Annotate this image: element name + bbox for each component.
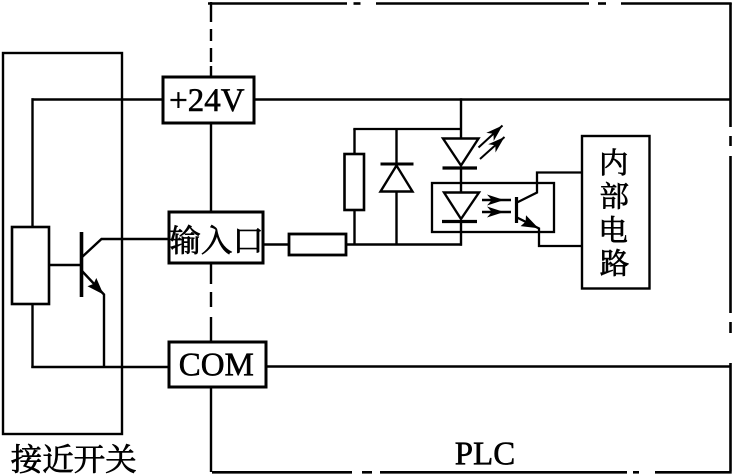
wire LED2 cathode down to input wire xyxy=(460,222,462,246)
transistor Q1 emitter arrow xyxy=(88,278,104,295)
wire input terminal to resistor R1 xyxy=(263,243,289,245)
optocoupler U1 package box xyxy=(432,183,554,232)
zener diode D1 bottom lead xyxy=(395,192,397,246)
label COM xyxy=(180,354,253,376)
terminal input box xyxy=(169,212,263,263)
caption PLC xyxy=(456,443,514,465)
zener diode D1 top lead xyxy=(395,129,397,165)
optocoupler LED2 triangle xyxy=(444,193,479,220)
resistor R2 (shunt resistor) xyxy=(345,154,365,210)
LED1 indicator diode triangle xyxy=(443,139,479,166)
caption proximity switch (jie jin kai guan) xyxy=(12,444,136,473)
wire +24V rail to PLC right border xyxy=(254,98,731,100)
LED1 light emission arrow lower xyxy=(480,137,505,159)
wire from +24V terminal to sensor (top horizontal) xyxy=(32,98,164,100)
optocoupler light coupling arrow lower xyxy=(482,211,511,213)
wire R2 bottom lead xyxy=(353,210,355,245)
internal circuit box xyxy=(582,136,650,289)
wire: PLC boundary top chain line xyxy=(208,2,732,5)
zener diode D1 cathode bar xyxy=(381,163,414,166)
wire: chain line above +24V terminal xyxy=(210,2,212,78)
resistor R1 (series input resistor) xyxy=(289,234,346,255)
wire transistor base to sensor xyxy=(48,264,81,266)
phototransistor Q2 emitter xyxy=(517,218,582,247)
transistor Q1 base bar xyxy=(80,232,84,297)
wire LED1 to LED2 xyxy=(460,167,462,193)
wire: PLC boundary bottom chain line xyxy=(212,471,732,474)
wire R2 top lead xyxy=(353,129,355,155)
phototransistor Q2 base bar xyxy=(515,197,518,223)
wire down-left to sensor element xyxy=(31,98,33,228)
wire below sensor element xyxy=(31,304,33,368)
label internal circuit (nei bu dian lu) xyxy=(601,149,629,277)
wire resistor R1 to LED branch xyxy=(346,243,462,245)
transistor Q1 collector to input terminal xyxy=(82,239,170,258)
sensor element rectangle xyxy=(12,227,49,304)
wire COM terminal to PLC right border xyxy=(266,365,731,367)
LED1 cathode bar xyxy=(443,166,478,169)
terminal COM box xyxy=(169,342,266,387)
wire below COM terminal xyxy=(210,387,212,472)
wire sensor bottom to COM terminal xyxy=(31,366,169,368)
phototransistor Q2 collector to internal circuit xyxy=(517,173,582,203)
wire +24V rail down to LED1 xyxy=(460,98,462,139)
transistor Q1 emitter xyxy=(82,271,105,369)
terminal +24V box xyxy=(163,77,254,123)
optocoupler LED2 cathode bar xyxy=(442,220,477,223)
label +24V xyxy=(171,89,245,111)
node line: top junction of R2/zener to LED string xyxy=(353,128,462,130)
label input port (shu ru kou) xyxy=(170,225,261,254)
phototransistor Q2 emitter arrow xyxy=(521,215,539,228)
wire +24V terminal to input terminal vertical xyxy=(210,123,212,212)
wire: PLC boundary right chain line xyxy=(729,3,732,471)
zener diode D1 triangle xyxy=(381,166,413,192)
proximity switch enclosure box xyxy=(3,53,122,434)
LED1 light emission arrow upper xyxy=(479,126,503,148)
optocoupler light coupling arrow upper xyxy=(482,199,511,201)
wire: chain line between input terminal and COM terminal xyxy=(210,263,212,343)
